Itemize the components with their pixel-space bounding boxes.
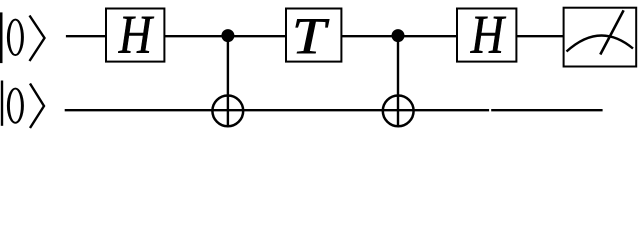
CNOT 2 vertical wire <box>397 36 399 127</box>
wire q1 segment 2 <box>491 109 602 111</box>
wire q0 segment 2 <box>164 35 286 37</box>
svg-text:H: H <box>118 4 154 65</box>
wire q1 segment 1 <box>65 109 489 111</box>
CNOT 2 target <box>383 96 414 127</box>
gate T box <box>286 9 341 62</box>
measurement meter arc <box>567 35 634 51</box>
wire q0 segment 1 <box>66 35 106 37</box>
svg-text:T: T <box>292 7 330 65</box>
wire q0 segment 4 <box>516 35 563 37</box>
CNOT 1 vertical wire <box>227 36 229 127</box>
CNOT 1 target <box>212 96 243 127</box>
gate H2 box <box>457 9 516 62</box>
CNOT 2 control dot <box>392 29 405 42</box>
measurement meter box <box>564 8 637 67</box>
ket |0> label qubit q1 <box>1 81 44 129</box>
gate H1 box <box>106 9 164 62</box>
CNOT 1 control dot <box>221 29 234 42</box>
ket |0> label qubit q0 <box>0 12 45 63</box>
wire q0 segment 3 <box>341 35 457 37</box>
measurement meter needle <box>600 10 623 54</box>
svg-text:H: H <box>470 4 506 65</box>
